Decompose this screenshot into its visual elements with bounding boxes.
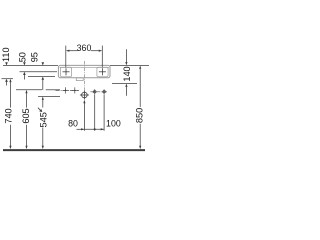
right centerline <box>90 91 107 93</box>
basin outline <box>58 65 110 77</box>
middle dot <box>94 128 96 130</box>
svg-text:545: 545 <box>39 112 49 127</box>
dim 360 arrow right <box>99 50 103 52</box>
supply cross right <box>102 89 107 94</box>
ref line 545 <box>38 96 60 98</box>
svg-text:740: 740 <box>3 108 13 123</box>
drain tab below basin <box>76 78 83 81</box>
dim 605 <box>26 93 28 146</box>
floor line <box>3 149 145 151</box>
svg-text:95: 95 <box>30 52 40 62</box>
supply cross left <box>92 89 97 94</box>
dim 110 <box>6 82 8 86</box>
ref line 140 lower <box>112 83 137 85</box>
dim 360 arrow left <box>66 50 70 52</box>
dim 95 <box>42 80 44 90</box>
drain circle crosshair <box>80 91 89 100</box>
dim 545 leader diagonal <box>38 108 41 111</box>
dim 360 ext tick right <box>101 46 103 68</box>
ref line 50 lower <box>20 71 58 73</box>
svg-text:50: 50 <box>18 52 28 62</box>
rim reference line right <box>110 65 149 67</box>
ref line 605 <box>16 89 42 91</box>
tap cross left <box>63 68 70 75</box>
svg-text:110: 110 <box>1 47 11 62</box>
fixing cross 1 <box>63 87 69 93</box>
tap hole box left <box>60 67 71 77</box>
basin inner deck line <box>59 66 109 68</box>
dim 80/100 line <box>77 128 105 130</box>
dim 100 arrow <box>101 128 104 130</box>
fixing cross 2 <box>72 87 78 93</box>
dim 850 <box>139 69 141 146</box>
ext line supply right <box>103 95 105 131</box>
tap cross right <box>99 68 106 75</box>
symbol row centerline <box>56 89 80 91</box>
tap hole box right <box>97 67 108 77</box>
svg-text:360: 360 <box>77 43 92 53</box>
ext line supply left <box>94 95 96 131</box>
dim 360 ext tick left <box>65 46 67 68</box>
ref line 110 lower <box>2 78 14 80</box>
dim 140 <box>125 49 127 96</box>
rim reference line left <box>3 65 58 67</box>
ref line 95 lower <box>28 76 55 78</box>
dim 360 <box>66 46 103 68</box>
svg-text:100: 100 <box>106 118 121 128</box>
dim 50 <box>23 75 25 80</box>
svg-text:140: 140 <box>122 66 132 81</box>
svg-text:80: 80 <box>68 118 78 128</box>
svg-text:605: 605 <box>21 108 31 123</box>
dim 80 arrow <box>81 128 84 130</box>
svg-text:850: 850 <box>135 108 145 123</box>
dim 545 <box>38 100 43 146</box>
ext line from drain <box>83 103 85 131</box>
dim 740 <box>9 82 11 146</box>
drain centerline dash-dot <box>83 61 85 90</box>
